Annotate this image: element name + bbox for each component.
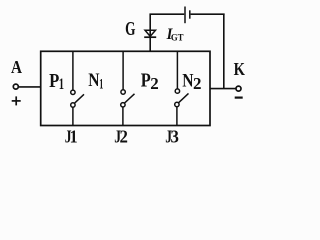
svg-text:P: P xyxy=(141,69,151,91)
junction J1 switch xyxy=(71,52,84,126)
wire gate vertical xyxy=(149,14,151,52)
svg-text:G: G xyxy=(125,18,135,40)
svg-text:2: 2 xyxy=(150,74,158,93)
svg-text:2: 2 xyxy=(193,74,201,93)
wire anode xyxy=(19,86,41,88)
svg-text:2: 2 xyxy=(120,127,128,146)
junction J2 switch xyxy=(121,52,135,126)
battery cell negative (short) plate xyxy=(189,10,191,18)
svg-text:A: A xyxy=(11,57,22,77)
svg-text:P: P xyxy=(49,70,59,92)
wire gate-top horizontal xyxy=(150,13,185,15)
svg-text:1: 1 xyxy=(59,75,64,93)
terminal A circle xyxy=(13,84,18,89)
cathode polarity minus sign xyxy=(235,96,243,98)
terminal K circle xyxy=(236,86,241,91)
svg-text:N: N xyxy=(182,69,194,91)
battery cell positive (long) plate xyxy=(184,7,186,24)
svg-text:K: K xyxy=(234,60,246,80)
anode polarity plus sign xyxy=(12,96,21,105)
gate diode xyxy=(144,30,156,37)
junction J3 switch xyxy=(175,52,189,126)
svg-text:3: 3 xyxy=(171,127,179,146)
wire right vertical drop to cathode xyxy=(223,14,225,90)
wire battery-to-corner horizontal xyxy=(191,13,225,15)
svg-text:GT: GT xyxy=(171,32,184,42)
svg-text:N: N xyxy=(88,68,100,90)
svg-text:1: 1 xyxy=(99,75,103,92)
wire cathode xyxy=(210,88,236,90)
svg-text:1: 1 xyxy=(70,127,78,147)
pnpn structure box xyxy=(41,51,210,125)
